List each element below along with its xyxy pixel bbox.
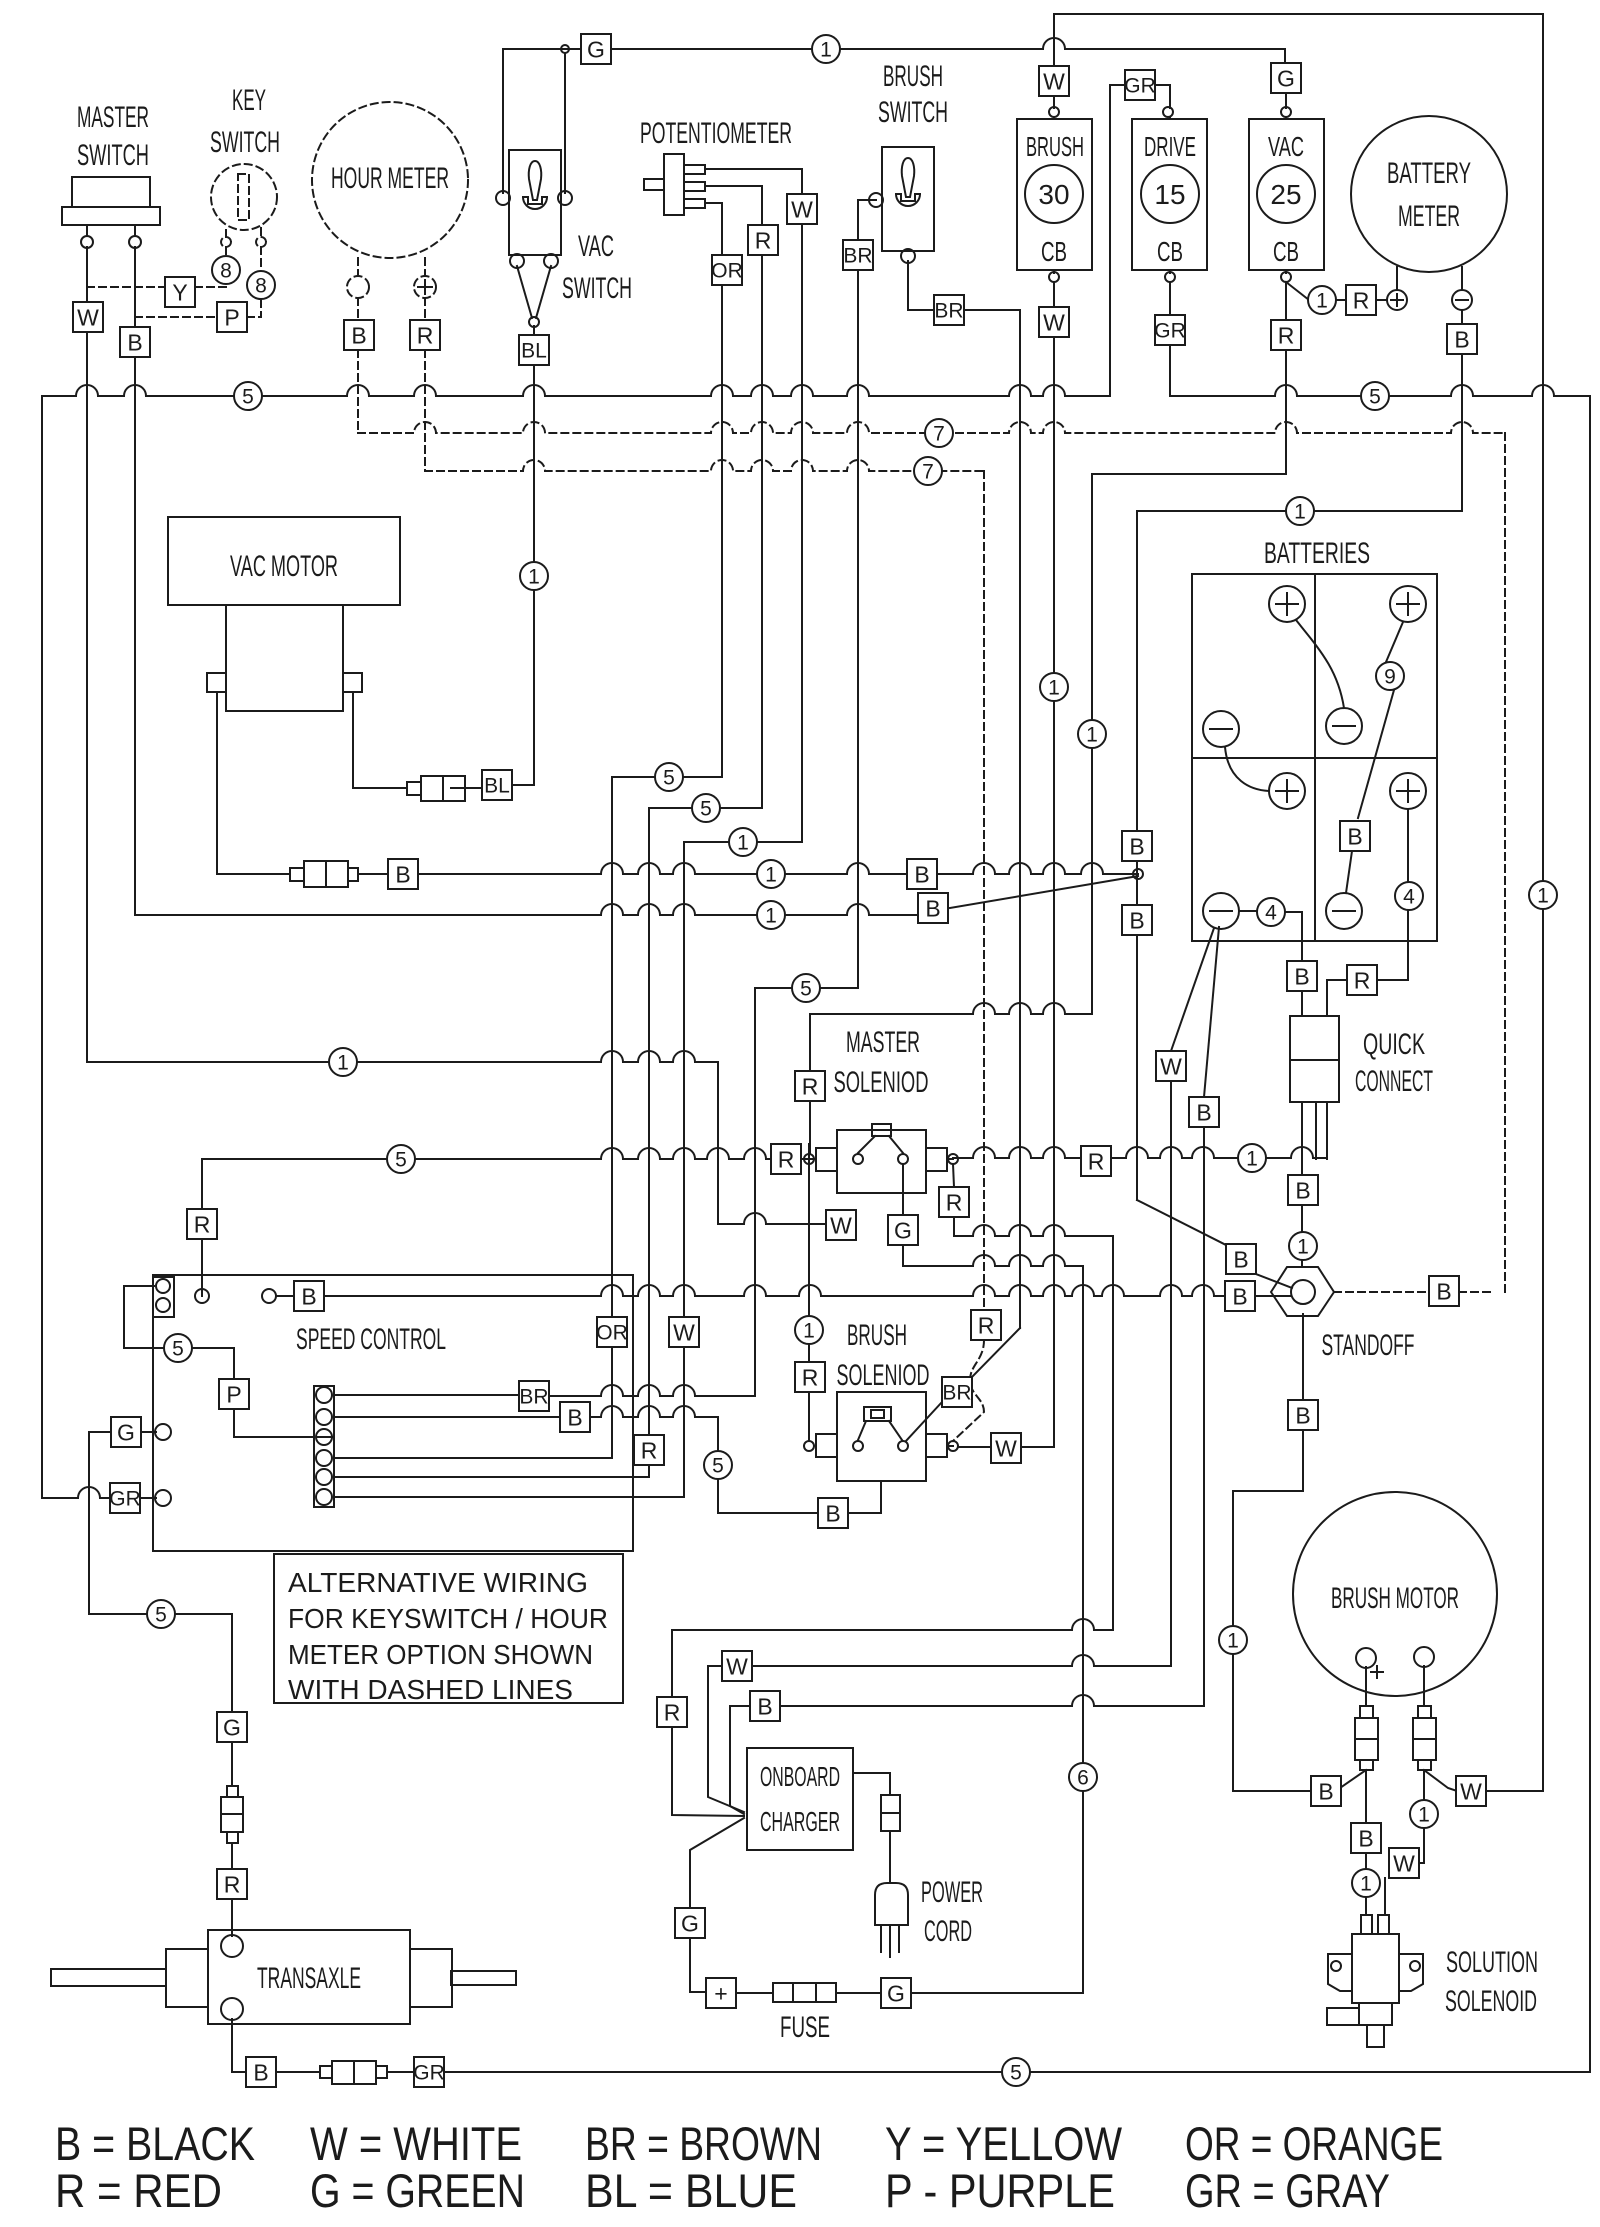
- svg-text:R: R: [1278, 322, 1295, 348]
- svg-text:5: 5: [1010, 2062, 1022, 2085]
- svg-text:W: W: [830, 1212, 852, 1238]
- wire sc pin2e: [847, 1481, 881, 1513]
- wire batt plus2 down: [1407, 809, 1409, 980]
- R label box: [634, 1435, 664, 1465]
- svg-text:SWITCH: SWITCH: [210, 126, 280, 159]
- R label box: [410, 320, 440, 350]
- wire red 1159: [202, 1148, 771, 1159]
- wire brown down2: [1019, 310, 1021, 1328]
- wire brown diag: [972, 1328, 1020, 1377]
- battery minus terminal: [1326, 893, 1362, 929]
- svg-text:1: 1: [1537, 885, 1549, 908]
- wire sc pin2: [334, 1416, 560, 1418]
- wire G2 right: [911, 1992, 1083, 1993]
- wire vac motor black: [217, 692, 290, 874]
- wire 1 marker: [729, 828, 757, 856]
- terminal: [316, 1489, 332, 1505]
- svg-text:BL: BL: [521, 340, 547, 363]
- B label box: [1287, 961, 1317, 991]
- svg-text:B: B: [301, 1283, 316, 1309]
- B label box: [907, 859, 937, 889]
- svg-text:5: 5: [395, 1149, 407, 1172]
- svg-text:MASTER: MASTER: [846, 1026, 920, 1059]
- W label box: [73, 302, 103, 332]
- svg-text:B: B: [567, 1404, 582, 1430]
- wire sc pin3: [318, 1436, 334, 1438]
- wire 1 marker: [520, 562, 548, 590]
- G label box: [888, 1215, 918, 1245]
- wire batt minus to 4: [1239, 910, 1257, 912]
- svg-text:R: R: [978, 1312, 995, 1338]
- svg-text:W: W: [673, 1319, 695, 1345]
- wire net5 link b: [649, 807, 762, 809]
- battery meter plus: [1387, 290, 1407, 310]
- BR label box: [934, 295, 964, 325]
- wire black slant to node: [950, 876, 1138, 908]
- svg-text:B: B: [1347, 823, 1362, 849]
- wire master switch white drop: [86, 225, 88, 302]
- wire vac switch right riser: [564, 53, 566, 193]
- wire white long down: [1053, 336, 1055, 1433]
- wire brush switch bottom: [908, 261, 935, 310]
- terminal: [316, 1409, 332, 1425]
- wire brush switch brown: [858, 200, 876, 241]
- svg-text:G: G: [894, 1217, 912, 1243]
- wire meter black down: [1461, 354, 1463, 511]
- wire bm sol pin: [1365, 1897, 1367, 1915]
- svg-text:5: 5: [712, 1455, 724, 1478]
- battery meter minus: [1452, 290, 1472, 310]
- B label box: [246, 2057, 276, 2087]
- svg-text:SWITCH: SWITCH: [77, 139, 149, 172]
- svg-text:G: G: [587, 36, 605, 62]
- wire 5 marker: [234, 382, 262, 410]
- terminal: [316, 1429, 332, 1445]
- svg-text:R: R: [755, 227, 772, 253]
- terminal: [256, 237, 266, 247]
- wire blue down: [512, 365, 534, 785]
- wire bm minus: [1423, 1666, 1425, 1706]
- wire 7 marker: [925, 419, 953, 447]
- potentiometer: [644, 154, 705, 215]
- svg-text:STANDOFF: STANDOFF: [1322, 1329, 1415, 1362]
- wire sc pin2d: [718, 1479, 818, 1513]
- solution solenoid: [1327, 1915, 1423, 2047]
- wire std down: [1233, 1314, 1303, 1491]
- svg-text:QUICK: QUICK: [1363, 1028, 1425, 1061]
- svg-text:5: 5: [155, 1604, 167, 1627]
- wire white down2: [683, 842, 685, 1497]
- wire red line right: [953, 1147, 1082, 1158]
- svg-text:1: 1: [1086, 724, 1098, 747]
- svg-text:SOLUTION: SOLUTION: [1446, 1946, 1538, 1979]
- svg-text:9: 9: [1384, 666, 1396, 689]
- wire 6 marker: [1069, 1763, 1097, 1791]
- svg-text:B: B: [127, 329, 142, 355]
- svg-text:W: W: [1043, 309, 1065, 335]
- wire brown down3: [754, 988, 756, 1396]
- wire bm minus down: [1418, 1770, 1424, 1863]
- svg-text:METER OPTION SHOWN: METER OPTION SHOWN: [288, 1639, 593, 1670]
- Y label box: [165, 277, 195, 307]
- svg-text:OR: OR: [596, 1322, 628, 1345]
- R label box: [657, 1697, 687, 1727]
- W label box: [1039, 307, 1069, 337]
- svg-text:B: B: [1295, 1177, 1310, 1203]
- wire sc pin6: [334, 1496, 684, 1498]
- dashed key switch wire a: [225, 230, 227, 237]
- wire bm B link: [1233, 1790, 1311, 1792]
- svg-text:R: R: [1354, 967, 1371, 993]
- wire 5 marker: [147, 1600, 175, 1628]
- dashed key switch wire b: [260, 228, 262, 237]
- GR label box: [109, 1483, 141, 1513]
- wire green conn chain2: [231, 1843, 233, 1870]
- wire rail riser GR drive: [1110, 85, 1125, 396]
- wire 5 marker: [1361, 382, 1389, 410]
- svg-text:R: R: [417, 322, 434, 348]
- B label box: [1225, 1281, 1255, 1311]
- P label box: [219, 1379, 249, 1409]
- W label box: [1456, 1776, 1486, 1806]
- terminal: [853, 1154, 863, 1164]
- terminal: [156, 1279, 170, 1293]
- svg-text:BATTERY: BATTERY: [1387, 157, 1471, 190]
- svg-text:CB: CB: [1273, 236, 1299, 267]
- B label box: [1311, 1776, 1341, 1806]
- B label box: [1226, 1244, 1256, 1274]
- wire net5 rail left: [42, 385, 1110, 396]
- charger connector: [881, 1795, 900, 1831]
- svg-text:R: R: [1088, 1148, 1105, 1174]
- svg-text:8: 8: [255, 275, 267, 298]
- R label box: [217, 1869, 247, 1899]
- terminal: [221, 1935, 243, 1957]
- terminal: [195, 1289, 209, 1303]
- svg-text:+: +: [714, 1980, 727, 2006]
- B label box: [120, 327, 150, 357]
- svg-text:7: 7: [933, 423, 945, 446]
- master soleniod: [816, 1124, 947, 1193]
- svg-text:BL: BL: [484, 775, 510, 798]
- OR label box: [711, 255, 743, 285]
- svg-text:BR: BR: [934, 300, 963, 323]
- svg-text:B: B: [757, 1693, 772, 1719]
- wire 1 marker: [1040, 673, 1068, 701]
- wire bsol B down: [880, 1481, 882, 1499]
- svg-text:6: 6: [1077, 1767, 1089, 1790]
- terminal: [901, 249, 915, 263]
- svg-text:R: R: [664, 1699, 681, 1725]
- svg-text:WITH DASHED LINES: WITH DASHED LINES: [288, 1674, 573, 1705]
- wire red line right3: [1266, 1147, 1327, 1158]
- svg-text:B: B: [253, 2059, 268, 2085]
- B label box: [918, 893, 948, 923]
- svg-text:1: 1: [1246, 1148, 1258, 1171]
- svg-text:SOLENIOD: SOLENIOD: [837, 1359, 930, 1392]
- svg-text:SPEED CONTROL: SPEED CONTROL: [296, 1323, 446, 1356]
- wire 1 marker: [1352, 1869, 1380, 1897]
- terminal: [804, 1154, 814, 1164]
- wire qc black stem: [1301, 991, 1303, 1016]
- vac switch: [509, 150, 561, 255]
- dashed key switch wire a2: [225, 247, 227, 256]
- svg-text:W: W: [995, 1435, 1017, 1461]
- wire sc pin1b: [550, 1385, 755, 1396]
- svg-text:R: R: [194, 1211, 211, 1237]
- wire white 1062: [87, 1051, 718, 1062]
- svg-text:CONNECT: CONNECT: [1355, 1065, 1433, 1098]
- wire orange down: [721, 285, 723, 777]
- wire sc pin2b: [589, 1406, 718, 1417]
- terminal: [155, 1424, 171, 1440]
- wire gr line: [42, 1487, 110, 1498]
- wire red down 810: [809, 1014, 811, 1154]
- svg-text:P - PURPLE: P - PURPLE: [885, 2164, 1115, 2217]
- svg-text:SWITCH: SWITCH: [878, 96, 948, 129]
- B label box: [1340, 821, 1370, 851]
- B label box: [750, 1691, 780, 1721]
- svg-text:B: B: [1294, 963, 1309, 989]
- wire sc pin5: [334, 1476, 649, 1478]
- svg-text:GR: GR: [1154, 320, 1186, 343]
- dashed purple wire: [135, 316, 217, 318]
- terminal: [948, 1441, 958, 1451]
- wire net1 link c: [684, 841, 802, 843]
- alternative wiring note box: [274, 1554, 623, 1703]
- wire msol W line: [808, 1164, 810, 1441]
- wire msol red down: [953, 1217, 955, 1236]
- wire vac motor right tab: [353, 692, 407, 788]
- svg-text:W: W: [1043, 68, 1065, 94]
- wire 7 marker: [914, 457, 942, 485]
- svg-text:R: R: [224, 1871, 241, 1897]
- svg-text:R: R: [802, 1073, 819, 1099]
- terminal: [1165, 272, 1175, 282]
- wire vac cb diag: [1286, 282, 1309, 300]
- svg-text:1: 1: [803, 1320, 815, 1343]
- wire vac cb bottom: [1285, 270, 1287, 321]
- svg-text:G: G: [223, 1714, 241, 1740]
- wire batt 4 to corner: [1285, 912, 1302, 962]
- R label box: [795, 1362, 825, 1392]
- svg-text:30: 30: [1038, 179, 1069, 210]
- wire w3 down: [1384, 1878, 1386, 1915]
- svg-text:HOUR METER: HOUR METER: [331, 162, 449, 195]
- brush motor plus sign: [1371, 1666, 1383, 1678]
- svg-text:1: 1: [1048, 677, 1060, 700]
- wire cb1 to R: [1336, 299, 1346, 301]
- R label box: [771, 1144, 801, 1174]
- wire bm to B: [1340, 1770, 1366, 1788]
- wire 1 marker: [1529, 881, 1557, 909]
- wire 5 marker: [792, 974, 820, 1002]
- svg-text:7: 7: [922, 461, 934, 484]
- svg-text:W = WHITE: W = WHITE: [310, 2117, 522, 2170]
- svg-text:CB: CB: [1041, 236, 1067, 267]
- svg-text:Y = YELLOW: Y = YELLOW: [885, 2117, 1123, 2170]
- svg-text:B: B: [1233, 1246, 1248, 1272]
- terminal: [898, 1154, 908, 1164]
- svg-text:BR: BR: [519, 1386, 548, 1409]
- brush switch: [882, 147, 934, 251]
- wire vac switch V: [517, 266, 551, 318]
- transaxle: [51, 1930, 516, 2024]
- svg-text:FOR KEYSWITCH / HOUR: FOR KEYSWITCH / HOUR: [288, 1603, 608, 1634]
- svg-text:VAC: VAC: [1268, 131, 1304, 162]
- svg-text:G: G: [117, 1419, 135, 1445]
- motor connector left: [1355, 1706, 1378, 1770]
- svg-text:SOLENOID: SOLENOID: [1445, 1985, 1537, 2018]
- wire net black 874: [417, 863, 1138, 874]
- svg-text:B: B: [1295, 1402, 1310, 1428]
- wire net5 link a: [612, 776, 722, 778]
- wire 1 marker: [1289, 1232, 1317, 1260]
- wire 1 marker: [757, 860, 785, 888]
- W label box: [1389, 1848, 1419, 1878]
- wire brush cb white riser: [1053, 14, 1055, 66]
- svg-text:B: B: [1129, 907, 1144, 933]
- svg-text:4: 4: [1403, 886, 1415, 909]
- wire minus wire: [1461, 267, 1463, 325]
- wire chg red: [672, 1630, 744, 1816]
- R label box: [1271, 320, 1301, 350]
- svg-text:G: G: [1277, 65, 1295, 91]
- wire green link: [175, 1614, 232, 1712]
- wire 1 marker: [795, 1316, 823, 1344]
- vac motor: [168, 517, 400, 711]
- wire bm plus down: [1365, 1770, 1367, 1869]
- svg-text:OR = ORANGE: OR = ORANGE: [1185, 2117, 1443, 2170]
- wire drive gr right: [1155, 85, 1170, 119]
- svg-text:CHARGER: CHARGER: [760, 1806, 840, 1837]
- wire batt slant B: [1204, 927, 1219, 1097]
- R label box: [1081, 1146, 1111, 1176]
- terminal: [869, 193, 883, 207]
- + label box: [706, 1978, 736, 2008]
- terminal: [804, 1441, 814, 1451]
- svg-text:Y: Y: [172, 279, 187, 305]
- B label box: [1288, 1400, 1318, 1430]
- wire transaxle red: [231, 1899, 233, 1936]
- wire node to B boxes: [1136, 511, 1138, 1200]
- svg-text:R: R: [778, 1146, 795, 1172]
- svg-text:DRIVE: DRIVE: [1144, 131, 1196, 162]
- svg-text:B: B: [351, 322, 366, 348]
- terminal: [544, 254, 558, 268]
- svg-text:MASTER: MASTER: [77, 101, 149, 134]
- brush soleniod: [816, 1392, 947, 1481]
- inline connector black: [290, 861, 358, 887]
- wire msol diag: [953, 1164, 954, 1187]
- terminal: [316, 1469, 332, 1485]
- wire chg B right: [780, 1695, 1204, 1706]
- svg-text:GR: GR: [1124, 75, 1156, 98]
- wire 5 marker: [387, 1145, 415, 1173]
- B label box: [1122, 905, 1152, 935]
- wire brush cb white: [1053, 95, 1055, 308]
- wire red line right2: [1111, 1147, 1238, 1158]
- wire gr circle link: [139, 1497, 156, 1499]
- B label box: [294, 1281, 324, 1311]
- svg-text:R: R: [641, 1437, 658, 1463]
- R label box: [1346, 285, 1376, 315]
- wire 1 marker: [1219, 1626, 1247, 1654]
- svg-text:1: 1: [1360, 1873, 1372, 1896]
- terminal: [1281, 272, 1291, 282]
- wire vac cb top: [1285, 93, 1287, 119]
- W label box: [1156, 1051, 1186, 1081]
- wire sc conn: [124, 1286, 164, 1348]
- master switch: [62, 177, 160, 225]
- terminal: [510, 254, 524, 268]
- hour meter: [312, 102, 468, 258]
- terminal: [561, 45, 569, 53]
- terminal: [558, 191, 572, 205]
- wire vac red down: [1285, 350, 1287, 474]
- wire black 511: [1137, 510, 1462, 512]
- W label box: [722, 1651, 752, 1681]
- wire master black 915: [135, 904, 918, 915]
- wire 4 marker: [1257, 898, 1285, 926]
- B label box: [1351, 1823, 1381, 1853]
- terminal: [1281, 107, 1291, 117]
- wire pot top pin: [705, 169, 802, 194]
- wire pot bot pin: [705, 203, 722, 255]
- terminal: [1049, 272, 1059, 282]
- wire red jog 1014: [810, 1003, 1092, 1014]
- wire qc red jog: [1327, 980, 1408, 1016]
- wire drive cb bottom: [1169, 270, 1171, 315]
- wire 1 marker: [1286, 497, 1314, 525]
- B label box: [1429, 1276, 1459, 1306]
- wire 1 marker: [1308, 286, 1336, 314]
- svg-text:1: 1: [737, 832, 749, 855]
- wire batt jumper b: [1225, 747, 1269, 791]
- vac circuit breaker: [1249, 119, 1324, 270]
- wire net5 bottom: [444, 2071, 1590, 2073]
- dashed key switch wire b2: [260, 247, 262, 271]
- wire transaxle black: [232, 2019, 247, 2072]
- dashed hour meter black: [357, 258, 359, 276]
- wire bsol W: [958, 1446, 991, 1448]
- wire bsol right exit: [948, 1445, 953, 1447]
- BR label box: [942, 1377, 972, 1407]
- R label box: [1347, 965, 1377, 995]
- wire batt series: [1346, 622, 1403, 893]
- wire bm circ1: [1232, 1491, 1234, 1791]
- G label box: [675, 1908, 705, 1938]
- svg-text:1: 1: [1418, 1804, 1430, 1827]
- dashed hour meter red2: [424, 298, 426, 321]
- svg-text:BRUSH: BRUSH: [883, 60, 943, 93]
- W label box: [991, 1433, 1021, 1463]
- terminal: [347, 276, 369, 298]
- R label box: [187, 1209, 217, 1239]
- svg-text:W: W: [1460, 1778, 1482, 1804]
- svg-text:BRUSH: BRUSH: [1026, 131, 1084, 162]
- wire chg B: [730, 1706, 750, 1814]
- wire red down 1113: [1112, 1236, 1114, 1630]
- wire master switch white down: [86, 332, 88, 1062]
- B label box: [344, 320, 374, 350]
- wire msol R stub: [808, 1144, 810, 1173]
- BL label box: [482, 770, 512, 800]
- wire orange down2: [611, 777, 613, 1458]
- batteries box: [1192, 574, 1437, 941]
- svg-text:BR = BROWN: BR = BROWN: [585, 2117, 822, 2170]
- svg-text:GR: GR: [109, 1488, 141, 1511]
